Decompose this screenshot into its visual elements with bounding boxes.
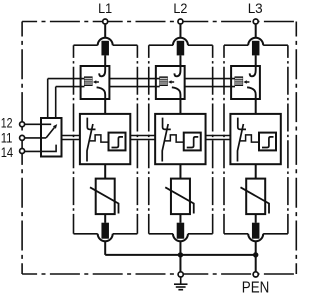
svg-text:PEN: PEN: [242, 279, 269, 296]
svg-text:L1: L1: [98, 0, 112, 16]
svg-text:11: 11: [1, 130, 13, 145]
svg-text:L2: L2: [173, 0, 187, 16]
svg-text:12: 12: [1, 115, 13, 130]
svg-text:L3: L3: [248, 0, 263, 16]
svg-text:14: 14: [1, 145, 14, 160]
